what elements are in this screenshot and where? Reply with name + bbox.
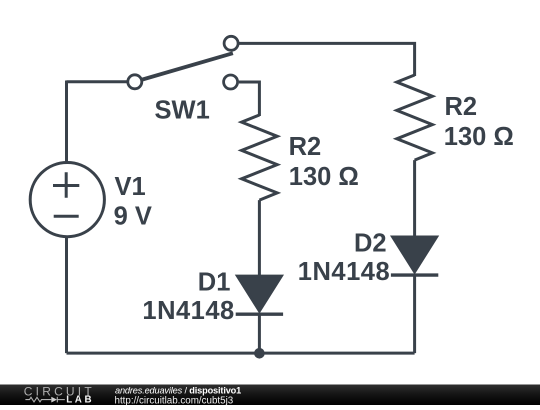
voltage source V1 xyxy=(30,163,104,237)
junction dot bottom node xyxy=(254,348,265,359)
svg-text:9 V: 9 V xyxy=(114,203,152,231)
svg-text:LAB: LAB xyxy=(66,395,94,406)
svg-text:130 Ω: 130 Ω xyxy=(444,123,514,151)
wire D2 to bottom rail xyxy=(413,275,416,353)
switch SW1 top terminal xyxy=(224,36,238,50)
switch SW1 blade xyxy=(141,53,233,80)
diode D2 triangle xyxy=(393,237,437,272)
svg-text:R2: R2 xyxy=(289,133,322,161)
wire switch lower terminal to middle branch xyxy=(239,82,259,116)
svg-text:R2: R2 xyxy=(445,93,478,121)
switch SW1 lower terminal xyxy=(224,75,238,89)
svg-text:1N4148: 1N4148 xyxy=(298,258,390,286)
footer bar xyxy=(0,385,540,406)
svg-text:http://circuitlab.com/cubt5j3: http://circuitlab.com/cubt5j3 xyxy=(115,396,234,405)
wire left vertical (to V1 top) xyxy=(65,81,68,163)
svg-text:130 Ω: 130 Ω xyxy=(289,163,359,191)
wire D1 to bottom rail xyxy=(258,314,261,353)
svg-text:1N4148: 1N4148 xyxy=(142,297,234,325)
diode D1 triangle xyxy=(238,276,282,311)
wire right branch resistor to D2 xyxy=(413,160,416,238)
wire switch top terminal to right branch xyxy=(239,43,415,76)
switch SW1 left terminal xyxy=(128,75,142,89)
svg-text:andres.eduaviles / dispositivo: andres.eduaviles / dispositivo1 xyxy=(115,386,241,396)
resistor R2 right branch zigzag xyxy=(397,75,433,160)
svg-text:D1: D1 xyxy=(198,269,231,297)
svg-text:SW1: SW1 xyxy=(155,96,210,124)
CircuitLab logo zigzag and diode glyph xyxy=(25,397,64,403)
svg-text:D2: D2 xyxy=(354,229,387,257)
resistor R2 middle branch zigzag xyxy=(242,115,278,200)
wire bottom rail xyxy=(67,352,415,355)
wire V1 bottom to ground rail xyxy=(65,237,68,353)
diode D1 cathode bar xyxy=(236,313,283,316)
svg-text:V1: V1 xyxy=(115,173,146,201)
wire top-left horizontal (switch to left rail) xyxy=(67,80,129,83)
diode D2 cathode bar xyxy=(391,273,438,276)
wire middle resistor to D1 xyxy=(258,200,261,277)
